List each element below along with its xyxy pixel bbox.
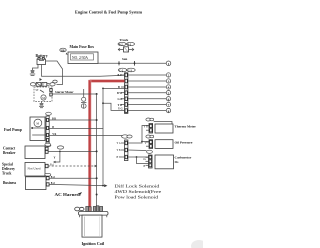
svg-text:8: 8: [168, 109, 170, 113]
svg-text:Ignition Coil: Ignition Coil: [82, 241, 106, 246]
connector C3 C4 ellipses: [122, 135, 133, 138]
svg-text:C-2: C-2: [119, 69, 124, 72]
svg-text:Fuel Pump: Fuel Pump: [4, 128, 22, 132]
svg-text:Oil Pressure: Oil Pressure: [175, 140, 193, 144]
wire battery right diagonal to starter: [46, 61, 63, 85]
pin stub labels left of bar: [117, 74, 125, 110]
svg-text:Not Used: Not Used: [28, 167, 41, 171]
starter top row: [30, 80, 57, 87]
wire barC pin3 to carburetor: [128, 156, 149, 158]
svg-text:AC Harness: AC Harness: [55, 193, 81, 197]
red wire horizontal: [90, 79, 125, 82]
bar C stub labels: [117, 142, 125, 159]
starter ground: [39, 102, 44, 108]
wire bus pin7 elbow: [103, 103, 125, 110]
wire barC pin1 up to thermo: [128, 126, 149, 144]
connector tick on main wire: [118, 61, 135, 66]
connector label C-2 C-3: [118, 68, 135, 72]
svg-text:Thermo Meter: Thermo Meter: [175, 125, 197, 129]
svg-text:NO. 2/30A: NO. 2/30A: [72, 56, 88, 60]
svg-text:B d: B d: [51, 176, 55, 179]
svg-text:B W: B W: [117, 92, 122, 95]
node A junction: [96, 93, 98, 95]
fuel pump box: [30, 117, 46, 141]
svg-text:3: 3: [168, 80, 170, 84]
svg-text:B-1: B-1: [127, 43, 132, 46]
oil pressure box: [155, 140, 173, 149]
svg-text:Diff Lock Solenoid: Diff Lock Solenoid: [115, 183, 160, 189]
oil connector ellipses: [146, 135, 154, 138]
wire fuel 2: [49, 129, 103, 186]
svg-text:5: 5: [168, 91, 170, 95]
svg-text:1: 1: [168, 62, 170, 66]
svg-text:Breaker: Breaker: [3, 151, 16, 155]
svg-text:Engine Control & Fuel Pump Sys: Engine Control & Fuel Pump System: [75, 10, 143, 15]
svg-text:SB: SB: [61, 48, 65, 52]
business box: [26, 177, 50, 190]
svg-text:4: 4: [168, 86, 170, 90]
svg-text:Pow load Solenoid: Pow load Solenoid: [115, 195, 159, 200]
fuel connector bottom ellipse: [45, 144, 51, 147]
svg-text:B W: B W: [117, 156, 122, 159]
wire barC pin2 to carburetor connector: [128, 149, 147, 152]
carburetor connector ellipse: [147, 150, 153, 153]
svg-text:Special: Special: [2, 163, 13, 167]
wire starter to node A: [52, 93, 96, 95]
solenoid text block: [115, 183, 162, 200]
connector ellipse E: [57, 146, 63, 149]
svg-text:Carburetor: Carburetor: [175, 156, 192, 160]
svg-text:Truck: Truck: [2, 172, 11, 176]
svg-text:2: 2: [168, 74, 170, 78]
svg-text:7: 7: [168, 103, 170, 107]
dashed wire not used: [48, 165, 97, 167]
svg-text:Y B: Y B: [118, 104, 123, 107]
oil pin bar: [145, 140, 153, 149]
ground G1: [30, 70, 35, 75]
svg-text:G O: G O: [118, 98, 123, 101]
connector bar J1: [125, 73, 128, 114]
battery B1: [37, 58, 46, 65]
carburetor box: [155, 155, 174, 169]
svg-text:IG: IG: [175, 160, 179, 164]
wire battery left down: [33, 65, 39, 71]
ignition coil lid: [79, 212, 109, 218]
svg-text:6: 6: [168, 97, 170, 101]
svg-text:Sun: Sun: [122, 57, 127, 61]
Y drop wire: [54, 151, 60, 162]
svg-text:Delivery: Delivery: [2, 167, 15, 171]
business connector ellipse: [45, 173, 51, 176]
svg-text:Business: Business: [3, 181, 17, 185]
carburetor pin bar: [143, 155, 152, 168]
ignition coil body: [82, 215, 102, 237]
fuse F2 truck: [118, 47, 134, 52]
wire to oil pins: [141, 141, 143, 143]
svg-text:Starter Motor: Starter Motor: [55, 90, 74, 94]
starter dashed box: [34, 87, 52, 102]
svg-text:1G: 1G: [143, 158, 146, 161]
svg-text:M: M: [36, 122, 39, 126]
coil connector ellipses D: [75, 207, 84, 211]
svg-text:Y B: Y B: [117, 149, 121, 152]
svg-text:4WD Solenoid(Free: 4WD Solenoid(Free: [115, 189, 162, 195]
svg-text:Y G: Y G: [117, 142, 121, 145]
hanging connector pair: [81, 89, 86, 109]
svg-text:Main Fuse Box: Main Fuse Box: [70, 45, 95, 49]
thermo connector ellipses: [146, 118, 154, 121]
wire contact to A: [48, 150, 97, 152]
fuel connector top ellipse: [46, 112, 52, 115]
svg-text:Contact: Contact: [3, 147, 16, 151]
terminal circle 1: [166, 61, 171, 66]
svg-text:B R: B R: [52, 118, 56, 121]
svg-text:Y G: Y G: [144, 126, 148, 129]
svg-text:B d: B d: [51, 182, 55, 185]
svg-text:Battery: Battery: [36, 54, 48, 58]
thermo meter box: [154, 122, 172, 125]
ignition coil terminals: [86, 206, 103, 212]
not used box: [25, 163, 48, 177]
svg-text:B Y: B Y: [118, 74, 122, 77]
ellipse above contact pins: [45, 143, 51, 146]
terminal circles 2-8: [166, 73, 170, 113]
bus wires to terminals: [128, 75, 166, 111]
red wire vertical: [88, 80, 91, 207]
svg-text:Y: Y: [145, 142, 147, 145]
svg-text:Truck: Truck: [120, 38, 129, 42]
connector bar C: [125, 140, 128, 161]
svg-text:C-3: C-3: [128, 69, 133, 72]
main wire to terminal 1: [98, 62, 166, 64]
wire fuel 1: [49, 119, 96, 121]
fuse box F1: [68, 52, 98, 64]
fuel connector bar: [46, 116, 49, 143]
wire battery bottom to bus: [42, 65, 125, 77]
svg-text:ST: ST: [36, 89, 39, 92]
connectors B-2 B-1: [118, 42, 135, 46]
wire fuel 3: [49, 135, 122, 137]
vertical wire A: [96, 94, 98, 207]
svg-text:Y: Y: [54, 157, 56, 160]
SB connector: [60, 48, 68, 55]
arrow mark: [40, 78, 43, 81]
business wires: [49, 177, 97, 179]
svg-text:M: M: [42, 96, 45, 100]
wire bus pin3 left: [103, 87, 125, 89]
contact breaker box: [25, 146, 48, 159]
svg-text:B-2: B-2: [119, 43, 124, 46]
thermo pin bar: [144, 124, 153, 134]
